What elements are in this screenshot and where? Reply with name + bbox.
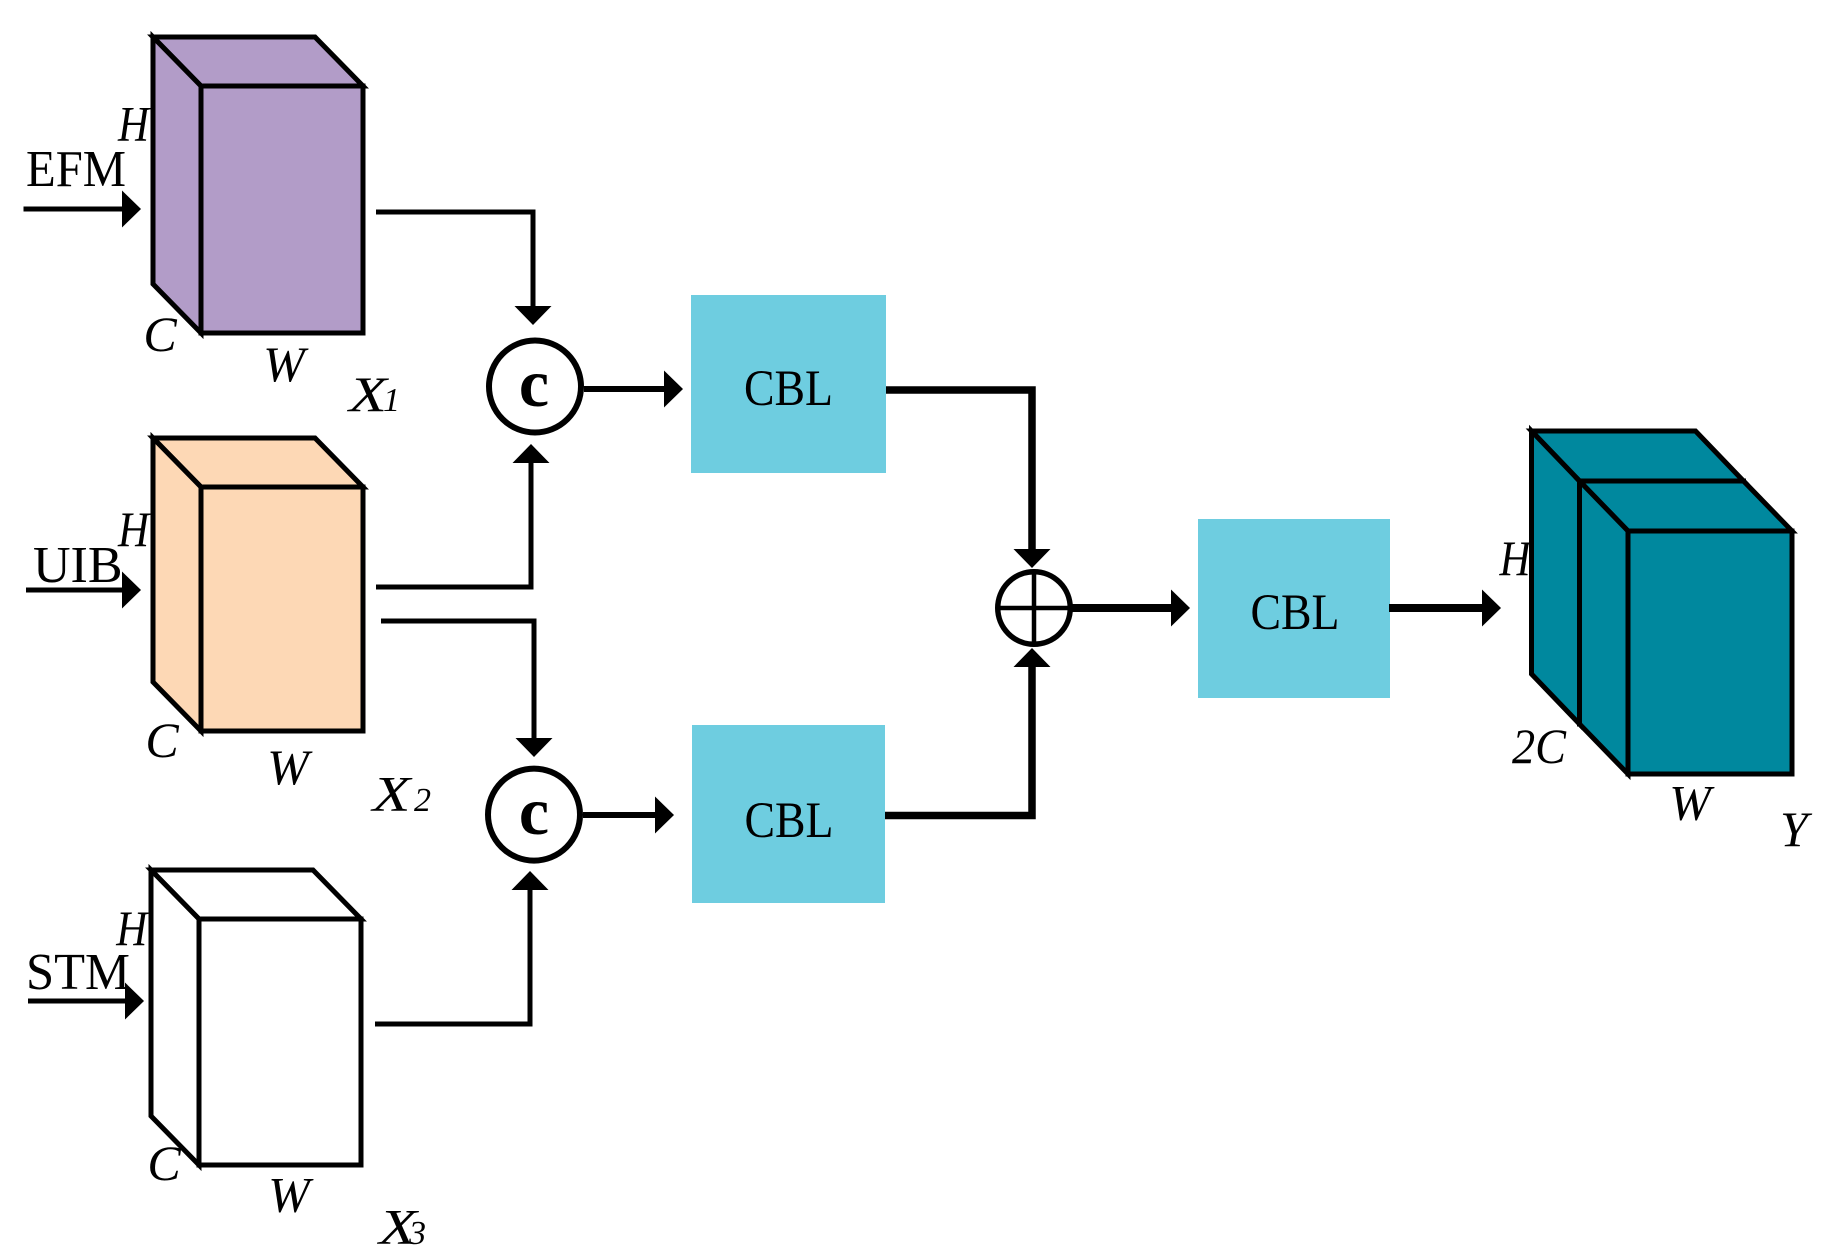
svg-text:H: H <box>117 96 151 152</box>
svg-text:1: 1 <box>383 382 400 419</box>
svg-text:2: 2 <box>414 782 431 819</box>
svg-text:2C: 2C <box>1512 718 1567 774</box>
svg-text:CBL: CBL <box>745 793 834 849</box>
svg-text:X: X <box>370 766 414 822</box>
svg-text:EFM: EFM <box>26 141 126 198</box>
svg-text:c: c <box>519 345 549 421</box>
svg-text:W: W <box>1669 775 1715 831</box>
svg-text:STM: STM <box>26 944 130 1001</box>
svg-text:W: W <box>267 739 313 795</box>
svg-text:H: H <box>117 501 151 557</box>
svg-text:C: C <box>147 1135 181 1191</box>
svg-text:c: c <box>519 773 549 849</box>
svg-text:C: C <box>143 306 177 362</box>
svg-text:W: W <box>263 336 309 392</box>
svg-text:CBL: CBL <box>1251 585 1340 641</box>
svg-text:H: H <box>115 900 149 956</box>
svg-text:CBL: CBL <box>744 361 833 417</box>
svg-text:3: 3 <box>408 1215 426 1252</box>
svg-text:C: C <box>145 712 179 768</box>
svg-text:UIB: UIB <box>33 537 123 594</box>
svg-text:H: H <box>1499 530 1533 586</box>
svg-text:W: W <box>268 1167 314 1223</box>
